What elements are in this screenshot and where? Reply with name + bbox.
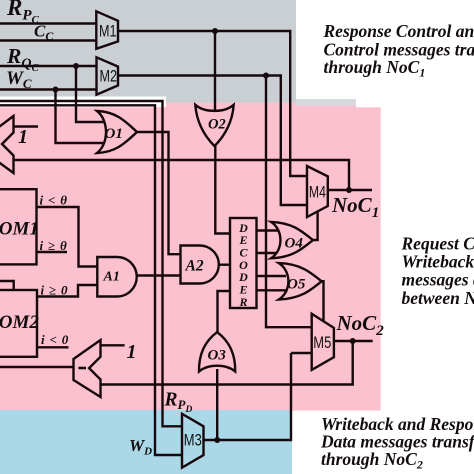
svg-text:M3: M3	[184, 431, 202, 450]
svg-text:R: R	[238, 295, 247, 309]
svg-text:O1: O1	[105, 126, 123, 142]
svg-text:M2: M2	[100, 67, 118, 86]
svg-text:M5: M5	[313, 333, 331, 352]
svg-text:A1: A1	[103, 270, 120, 285]
svg-text:messages are: messages are	[402, 270, 474, 290]
svg-text:i ≥ θ: i ≥ θ	[40, 238, 68, 253]
svg-text:TOM1: TOM1	[0, 219, 39, 240]
svg-text:M1: M1	[99, 22, 117, 41]
svg-text:between NoC: between NoC	[402, 288, 474, 308]
svg-text:Request Con: Request Con	[401, 234, 474, 254]
svg-text:i < θ: i < θ	[40, 193, 68, 208]
svg-text:Writeback C: Writeback C	[402, 252, 474, 272]
svg-text:1: 1	[127, 341, 137, 363]
svg-text:M4: M4	[309, 183, 326, 202]
svg-text:O2: O2	[208, 117, 226, 133]
svg-text:1: 1	[18, 126, 28, 148]
svg-text:through NoC1: through NoC1	[324, 57, 426, 80]
svg-text:i ≥ 0: i ≥ 0	[41, 283, 69, 298]
svg-text:Response Control and: Response Control and	[323, 21, 474, 41]
svg-text:i < 0: i < 0	[41, 332, 69, 347]
svg-text:O5: O5	[287, 277, 306, 293]
svg-text:O4: O4	[285, 236, 304, 252]
svg-text:A2: A2	[185, 258, 204, 275]
svg-text:O3: O3	[208, 348, 227, 364]
svg-text:through NoC2: through NoC2	[321, 449, 423, 472]
svg-text:TOM2: TOM2	[0, 312, 39, 333]
